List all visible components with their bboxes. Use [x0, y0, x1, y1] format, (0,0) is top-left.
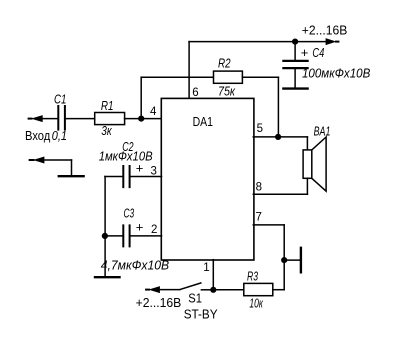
svg-text:8: 8	[256, 182, 262, 194]
ground input arrow	[33, 157, 44, 164]
wire pin 2	[131, 235, 162, 237]
svg-text:R3: R3	[247, 270, 258, 284]
svg-text:+2...16В: +2...16В	[302, 23, 348, 37]
ground right	[300, 248, 302, 272]
supply arrow right	[326, 38, 337, 45]
wire pin 6 vertical	[188, 42, 190, 99]
svg-text:3: 3	[150, 165, 156, 177]
wire switch left	[160, 289, 180, 291]
wire ground input	[44, 159, 72, 161]
node ground tap	[281, 257, 287, 263]
svg-text:+: +	[136, 219, 144, 234]
svg-text:3к: 3к	[101, 124, 112, 138]
wire ground tap	[284, 259, 300, 261]
svg-text:Вход: Вход	[25, 129, 51, 143]
wire junction up to R2	[140, 77, 142, 118]
speaker BA1	[303, 150, 312, 178]
svg-text:2: 2	[151, 224, 157, 236]
wire ground input vertical	[71, 160, 73, 175]
IC amplifier DA1	[161, 98, 254, 260]
switch S1 lever	[180, 283, 201, 290]
wire supply rail top	[189, 41, 325, 43]
svg-text:100мкФх10В: 100мкФх10В	[302, 66, 370, 80]
wire left vertical C2/C3	[104, 177, 106, 277]
svg-text:4: 4	[150, 106, 157, 118]
wire C4 top	[294, 42, 296, 60]
wire pin 3	[131, 176, 162, 178]
svg-text:C3: C3	[124, 207, 135, 221]
ground left	[95, 276, 120, 278]
wire pin 7	[253, 224, 284, 226]
svg-text:BA1: BA1	[314, 124, 331, 138]
wire C3 left	[105, 235, 123, 237]
ground input	[59, 175, 84, 177]
resistor R2	[214, 71, 243, 83]
svg-text:R1: R1	[101, 99, 114, 113]
svg-text:75к: 75к	[218, 84, 236, 98]
input terminal arrow	[31, 115, 43, 122]
ground C4	[283, 87, 307, 89]
supply arrow bottom left	[149, 286, 160, 293]
wire R1 to pin 4	[125, 118, 162, 120]
svg-text:+2...16В: +2...16В	[136, 296, 182, 310]
svg-text:10к: 10к	[249, 297, 263, 311]
wire to speaker top	[306, 137, 308, 150]
wire speaker bottom	[306, 178, 308, 194]
node pin5 junction	[275, 134, 281, 140]
svg-text:6: 6	[192, 87, 198, 99]
wire C4 bottom	[294, 69, 296, 87]
svg-text:C4: C4	[312, 46, 324, 60]
wire input arrow to C1	[43, 118, 58, 120]
wire pin1 to R3	[213, 289, 244, 291]
resistor R3	[244, 283, 273, 295]
svg-text:0,1: 0,1	[52, 129, 67, 143]
capacitor C4	[283, 61, 307, 68]
svg-text:R2: R2	[218, 56, 231, 70]
wire pin7 down to R3	[283, 225, 285, 290]
node C3 junction	[102, 233, 108, 239]
svg-text:ST-BY: ST-BY	[184, 308, 219, 322]
wire to R2 left	[141, 76, 213, 78]
node pin4/R2 junction	[138, 116, 144, 122]
capacitor C1	[58, 106, 65, 130]
wire R3 right	[273, 289, 284, 291]
node C4 tap	[292, 39, 298, 45]
wire pin 8	[253, 193, 307, 195]
wire pin 1 vertical	[212, 260, 214, 290]
capacitor C2	[123, 166, 129, 187]
wire C1 to R1	[66, 118, 95, 120]
wire pin 5	[253, 136, 307, 138]
wire C2 left	[105, 176, 123, 178]
svg-text:+: +	[301, 45, 309, 60]
svg-text:DA1: DA1	[193, 115, 213, 129]
svg-text:1: 1	[203, 262, 209, 274]
wire R2 right	[242, 76, 278, 78]
svg-text:C1: C1	[54, 93, 66, 107]
svg-text:1мкФх10В: 1мкФх10В	[99, 150, 153, 164]
capacitor C3	[123, 225, 129, 246]
wire switch right	[201, 289, 213, 291]
svg-text:5: 5	[257, 123, 263, 135]
svg-text:S1: S1	[188, 292, 202, 306]
resistor R1	[95, 113, 125, 125]
svg-text:4,7мкФх10В: 4,7мкФх10В	[101, 259, 169, 273]
svg-text:+: +	[136, 160, 144, 175]
wire R2 down to pin 5	[277, 77, 279, 137]
svg-text:7: 7	[256, 212, 262, 224]
node pin1 junction	[210, 287, 216, 293]
